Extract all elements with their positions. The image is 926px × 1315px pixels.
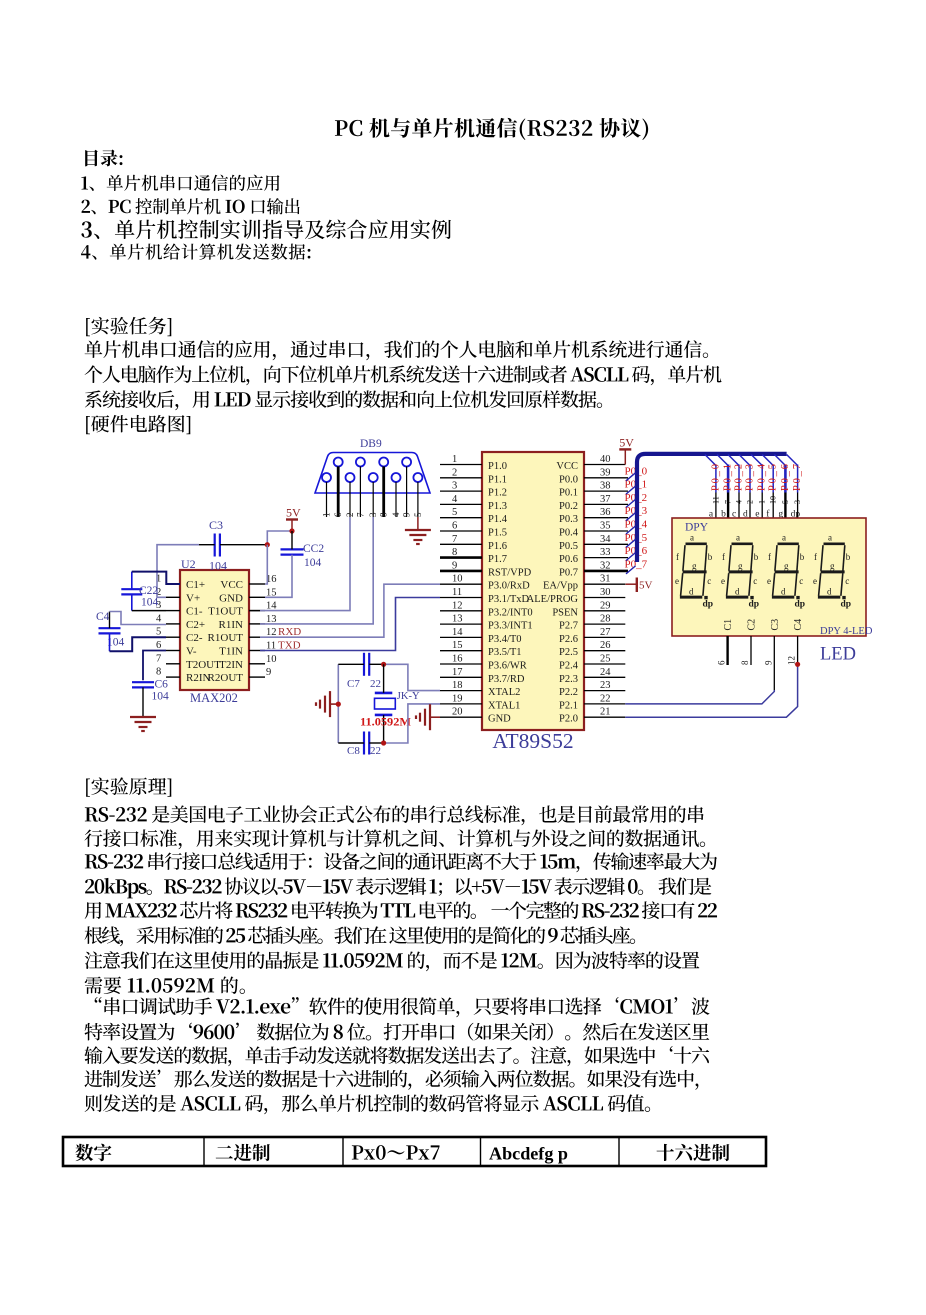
svg-text:P2.1: P2.1 xyxy=(559,700,578,711)
svg-text:9: 9 xyxy=(452,560,457,571)
crystal Y1 JK-Y xyxy=(375,692,393,695)
wire C4 bottom to pin5 C2- xyxy=(109,633,111,651)
svg-text:P0.5: P0.5 xyxy=(559,541,578,552)
svg-text:P2.6: P2.6 xyxy=(559,634,578,645)
svg-text:9: 9 xyxy=(763,660,773,665)
svg-text:e: e xyxy=(767,576,771,586)
wire T1OUT pin14 to DB9 pin2 xyxy=(260,517,350,611)
5V power near MAX202 xyxy=(291,520,293,532)
svg-text:12: 12 xyxy=(452,600,463,611)
svg-text:d: d xyxy=(735,587,740,597)
svg-text:6: 6 xyxy=(717,660,727,665)
svg-text:37: 37 xyxy=(600,494,611,505)
junction C7-crystal xyxy=(381,662,386,667)
svg-text:104: 104 xyxy=(209,559,227,573)
svg-text:5: 5 xyxy=(452,507,457,518)
svg-text:19: 19 xyxy=(452,693,463,704)
svg-text:4: 4 xyxy=(735,500,744,504)
IC U2 MAX202 body xyxy=(180,570,249,690)
svg-text:e: e xyxy=(721,576,725,586)
5V power at U1 pin31 EA/Vpp xyxy=(626,583,637,585)
svg-text:35: 35 xyxy=(600,521,611,532)
svg-text:5V: 5V xyxy=(286,506,301,520)
svg-text:P2.0: P2.0 xyxy=(559,714,578,725)
svg-text:3: 3 xyxy=(452,481,457,492)
svg-text:b: b xyxy=(754,552,759,562)
svg-text:DPY 4-LED: DPY 4-LED xyxy=(820,626,873,637)
svg-text:RST/VPD: RST/VPD xyxy=(488,567,532,578)
svg-text:Abcdefg p: Abcdefg p xyxy=(489,1144,568,1164)
junction crystal ground xyxy=(336,702,341,707)
svg-text:P0.2: P0.2 xyxy=(559,501,578,512)
svg-text:a: a xyxy=(782,533,786,543)
svg-text:VCC: VCC xyxy=(220,579,243,591)
svg-text:31: 31 xyxy=(600,574,611,585)
svg-text:P0_4: P0_4 xyxy=(757,463,768,491)
svg-text:22: 22 xyxy=(370,745,381,757)
svg-text:4: 4 xyxy=(391,512,401,517)
svg-text:C2: C2 xyxy=(747,619,758,631)
svg-text:XTAL2: XTAL2 xyxy=(488,687,520,698)
capacitor C3 xyxy=(214,534,216,557)
svg-text:b: b xyxy=(800,552,805,562)
svg-text:DPY: DPY xyxy=(685,522,709,534)
svg-text:C22: C22 xyxy=(139,585,158,597)
svg-text:24: 24 xyxy=(600,667,611,678)
wire C8 to XTAL1 pin19 xyxy=(384,704,440,743)
svg-text:22: 22 xyxy=(600,693,611,704)
svg-text:5V: 5V xyxy=(619,435,634,449)
svg-text:P2.7: P2.7 xyxy=(559,621,578,632)
wire C3 left lead xyxy=(199,544,215,546)
svg-text:7: 7 xyxy=(452,534,457,545)
junction at C3 right xyxy=(265,542,270,547)
svg-text:P0.4: P0.4 xyxy=(559,528,579,539)
svg-text:d: d xyxy=(689,587,694,597)
svg-text:8: 8 xyxy=(379,512,389,517)
svg-text:f: f xyxy=(814,552,817,562)
svg-text:8: 8 xyxy=(156,667,161,678)
svg-text:C1: C1 xyxy=(723,619,734,631)
svg-text:P3.4/T0: P3.4/T0 xyxy=(488,634,522,645)
capacitor CC2 xyxy=(281,548,304,550)
svg-text:2: 2 xyxy=(345,513,355,518)
svg-text:P0.0: P0.0 xyxy=(559,474,578,485)
wire C22 bottom to pin3 C1- xyxy=(131,594,133,610)
wire C8 right lead xyxy=(369,742,383,744)
svg-text:P0.1: P0.1 xyxy=(559,488,578,499)
svg-text:C1+: C1+ xyxy=(186,579,205,591)
ground rotated at U1 pin20 GND xyxy=(429,704,431,730)
svg-text:11.0592M: 11.0592M xyxy=(360,715,411,729)
svg-text:104: 104 xyxy=(304,557,322,569)
svg-text:P3.1/TxD: P3.1/TxD xyxy=(488,594,530,605)
svg-text:P1.1: P1.1 xyxy=(488,474,507,485)
svg-text:18: 18 xyxy=(452,680,463,691)
svg-text:dp: dp xyxy=(749,600,760,610)
svg-text:22: 22 xyxy=(370,678,381,690)
svg-text:8: 8 xyxy=(740,660,750,665)
svg-text:a: a xyxy=(690,533,694,543)
svg-text:R2OUT: R2OUT xyxy=(208,672,244,684)
wire C22 top to pin1 xyxy=(131,572,133,590)
svg-text:T2OUT: T2OUT xyxy=(186,659,221,671)
svg-text:104: 104 xyxy=(152,691,170,703)
svg-text:P0.6: P0.6 xyxy=(559,554,578,565)
IC U1 AT89S52 body xyxy=(482,452,584,730)
svg-text:27: 27 xyxy=(600,627,611,638)
svg-text:c: c xyxy=(753,576,757,586)
svg-text:32: 32 xyxy=(600,560,611,571)
svg-text:f: f xyxy=(676,552,679,562)
5V power at U1 pin40 VCC xyxy=(624,449,626,464)
bus P0 vertical+horizontal xyxy=(637,454,787,562)
wire 5V to C3 junction xyxy=(267,531,292,545)
wire XTAL loop left xyxy=(337,664,339,743)
capacitor C22 xyxy=(121,588,142,590)
svg-text:EA/Vpp: EA/Vpp xyxy=(543,581,578,592)
wire C6 bottom to ground xyxy=(142,687,144,717)
svg-text:7: 7 xyxy=(355,512,365,517)
connector J1 pin circles xyxy=(334,458,343,467)
svg-text:10: 10 xyxy=(266,654,277,665)
svg-text:7: 7 xyxy=(156,653,161,664)
svg-text:3: 3 xyxy=(368,512,378,517)
svg-text:C3: C3 xyxy=(209,518,223,532)
svg-text:33: 33 xyxy=(600,547,611,558)
display common pin leads xyxy=(726,636,728,665)
svg-text:RXD: RXD xyxy=(278,626,301,638)
svg-text:P2.5: P2.5 xyxy=(559,647,578,658)
svg-text:AT89S52: AT89S52 xyxy=(492,729,573,753)
svg-text:C4: C4 xyxy=(96,611,110,623)
svg-text:C6: C6 xyxy=(155,679,169,691)
svg-text:P2.3: P2.3 xyxy=(559,674,578,685)
wire U1 pin21 to display common4 xyxy=(625,664,797,717)
svg-text:ALE/PROG: ALE/PROG xyxy=(527,594,579,605)
svg-text:P3.2/INT0: P3.2/INT0 xyxy=(488,607,533,618)
svg-text:DB9: DB9 xyxy=(360,438,382,450)
svg-text:10: 10 xyxy=(769,496,778,504)
svg-text:P3.3/INT1: P3.3/INT1 xyxy=(488,621,533,632)
svg-text:38: 38 xyxy=(600,481,611,492)
svg-text:6: 6 xyxy=(452,521,457,532)
svg-text:1: 1 xyxy=(322,513,332,518)
svg-text:d: d xyxy=(827,587,832,597)
svg-text:26: 26 xyxy=(600,640,611,651)
wire C3 right lead xyxy=(220,544,267,546)
bus entries from pins 39-32 xyxy=(626,473,636,481)
svg-text:g: g xyxy=(738,561,743,571)
svg-text:e: e xyxy=(675,576,679,586)
svg-text:5: 5 xyxy=(781,500,790,504)
wire C4 top to pin4 C2+ xyxy=(109,612,111,629)
svg-text:P0.3: P0.3 xyxy=(559,514,578,525)
svg-text:34: 34 xyxy=(600,534,611,545)
wire R1IN pin13 to DB9 pin3 xyxy=(260,517,373,624)
svg-text:21: 21 xyxy=(600,707,611,718)
connector J1 pin leads xyxy=(337,466,340,517)
svg-text:9: 9 xyxy=(266,667,271,678)
junction C8-crystal xyxy=(381,740,386,745)
svg-text:23: 23 xyxy=(600,680,611,691)
svg-text:C7: C7 xyxy=(347,678,360,690)
svg-text:R1IN: R1IN xyxy=(219,619,244,631)
svg-text:P3.7/RD: P3.7/RD xyxy=(488,674,525,685)
ground below C6 xyxy=(130,716,156,718)
wire R1OUT pin12 to U1 pin10 RXD xyxy=(260,584,440,637)
svg-text:3: 3 xyxy=(793,500,802,504)
wire T1IN pin11 to U1 pin11 TXD xyxy=(260,598,440,651)
svg-text:4: 4 xyxy=(156,613,162,624)
svg-text:R1OUT: R1OUT xyxy=(208,632,244,644)
svg-text:1: 1 xyxy=(452,454,457,465)
svg-text:g: g xyxy=(830,561,835,571)
display DS1 body xyxy=(672,518,866,636)
svg-text:d: d xyxy=(781,587,786,597)
svg-text:P3.6/WR: P3.6/WR xyxy=(488,661,527,672)
IC U1 left pins 1-20 xyxy=(440,464,482,466)
wire CC2 bottom to GND pin15 xyxy=(265,555,292,598)
svg-text:g: g xyxy=(692,561,697,571)
svg-text:9: 9 xyxy=(402,512,412,517)
svg-text:P1.2: P1.2 xyxy=(488,488,507,499)
wires segment lines a-dp xyxy=(715,465,717,493)
capacitor C6 xyxy=(132,681,154,683)
svg-text:P3.0/RxD: P3.0/RxD xyxy=(488,581,530,592)
svg-text:C3: C3 xyxy=(770,619,781,631)
svg-text:7: 7 xyxy=(724,500,733,504)
svg-text:6: 6 xyxy=(156,640,161,651)
svg-text:f: f xyxy=(768,552,771,562)
table outer border xyxy=(63,1137,766,1166)
svg-text:17: 17 xyxy=(452,667,463,678)
wire VCC pin16 riser xyxy=(265,545,267,584)
svg-text:4: 4 xyxy=(452,494,458,505)
wire C8 left lead xyxy=(338,742,364,744)
svg-text:a: a xyxy=(736,533,740,543)
svg-text:39: 39 xyxy=(600,467,611,478)
IC U1 right pins 40-21 xyxy=(584,464,625,466)
svg-text:28: 28 xyxy=(600,614,611,625)
svg-text:P1.3: P1.3 xyxy=(488,501,507,512)
svg-text:U2: U2 xyxy=(181,557,196,571)
junction at common4 xyxy=(795,662,800,667)
wire C7 left lead xyxy=(338,663,364,665)
svg-text:P1.0: P1.0 xyxy=(488,461,507,472)
svg-text:5V: 5V xyxy=(639,580,653,592)
svg-text:C2+: C2+ xyxy=(186,619,205,631)
svg-text:dp: dp xyxy=(703,600,714,610)
svg-text:V+: V+ xyxy=(186,592,200,604)
ground at DB9 pin 5 xyxy=(417,517,419,530)
svg-text:CC2: CC2 xyxy=(303,543,324,555)
svg-text:10: 10 xyxy=(452,574,463,585)
wire U2 pin14 stub xyxy=(249,610,260,612)
svg-text:b: b xyxy=(708,552,713,562)
svg-text:a: a xyxy=(828,533,832,543)
svg-text:40: 40 xyxy=(600,454,611,465)
svg-text:MAX202: MAX202 xyxy=(190,691,238,705)
svg-text:C8: C8 xyxy=(347,745,360,757)
svg-text:16: 16 xyxy=(452,654,463,665)
svg-text:VCC: VCC xyxy=(556,461,578,472)
wire V+ pin2 to C3 xyxy=(157,545,199,598)
svg-text:8: 8 xyxy=(452,547,457,558)
capacitor C8 xyxy=(363,732,365,755)
svg-text:P0.7: P0.7 xyxy=(559,567,578,578)
svg-text:T1OUT: T1OUT xyxy=(208,606,243,618)
svg-text:f: f xyxy=(722,552,725,562)
svg-text:c: c xyxy=(707,576,711,586)
svg-text:15: 15 xyxy=(452,640,463,651)
svg-text:c: c xyxy=(799,576,803,586)
svg-text:P1.4: P1.4 xyxy=(488,514,508,525)
svg-text:e: e xyxy=(813,576,817,586)
IC U2 right pins 16-9 xyxy=(249,583,265,585)
bus exits to display segment lines xyxy=(705,455,716,466)
svg-text:2: 2 xyxy=(452,467,457,478)
svg-text:5: 5 xyxy=(413,512,423,517)
svg-text:C1-: C1- xyxy=(186,606,203,618)
wire 5V to CC2 top xyxy=(291,531,293,549)
svg-text:V-: V- xyxy=(186,646,197,658)
svg-text:14: 14 xyxy=(452,627,463,638)
connector J1 DB9 shell xyxy=(315,453,430,494)
svg-text:T1IN: T1IN xyxy=(219,646,243,658)
svg-text:XTAL1: XTAL1 xyxy=(488,700,520,711)
svg-text:P1.6: P1.6 xyxy=(488,541,507,552)
svg-text:1: 1 xyxy=(758,500,767,504)
svg-text:13: 13 xyxy=(452,614,463,625)
svg-text:P2.4: P2.4 xyxy=(559,661,579,672)
svg-text:P2.2: P2.2 xyxy=(559,687,578,698)
svg-text:c: c xyxy=(845,576,849,586)
svg-text:6: 6 xyxy=(333,512,343,517)
ground rotated at crystal loop xyxy=(329,691,331,717)
wire U1 pin22 to display common3 xyxy=(625,690,774,704)
svg-text:b: b xyxy=(846,552,851,562)
svg-text:GND: GND xyxy=(219,592,243,604)
svg-text:P1.7: P1.7 xyxy=(488,554,507,565)
svg-text:5: 5 xyxy=(156,627,161,638)
svg-text:104: 104 xyxy=(141,597,159,609)
svg-text:20: 20 xyxy=(452,707,463,718)
svg-text:30: 30 xyxy=(600,587,611,598)
svg-text:T2IN: T2IN xyxy=(219,659,243,671)
wire C7 right lead xyxy=(369,663,383,665)
display digits 7-segment xyxy=(680,544,707,597)
svg-text:25: 25 xyxy=(600,654,611,665)
svg-text:PSEN: PSEN xyxy=(552,607,578,618)
IC U2 left pins 1-8 xyxy=(166,583,180,585)
svg-text:C4: C4 xyxy=(793,619,804,631)
svg-text:dp: dp xyxy=(795,600,806,610)
wire V- pin6 to C6 xyxy=(143,651,166,681)
svg-text:2: 2 xyxy=(746,500,755,504)
svg-text:P1.5: P1.5 xyxy=(488,528,507,539)
capacitor C4 xyxy=(99,627,121,629)
wire C7 to XTAL2 pin18 xyxy=(384,664,440,690)
svg-text:P3.5/T1: P3.5/T1 xyxy=(488,647,522,658)
table column dividers xyxy=(203,1137,205,1166)
svg-text:g: g xyxy=(784,561,789,571)
svg-text:29: 29 xyxy=(600,600,611,611)
svg-text:11: 11 xyxy=(452,587,462,598)
junction at 5V xyxy=(289,528,294,533)
svg-text:11: 11 xyxy=(711,496,720,504)
capacitor C7 xyxy=(363,653,365,676)
svg-text:dp: dp xyxy=(841,600,852,610)
svg-text:GND: GND xyxy=(488,714,511,725)
svg-text:LED: LED xyxy=(820,645,856,665)
svg-text:JK-Y: JK-Y xyxy=(397,691,420,702)
svg-text:36: 36 xyxy=(600,507,611,518)
svg-text:C2-: C2- xyxy=(186,632,203,644)
